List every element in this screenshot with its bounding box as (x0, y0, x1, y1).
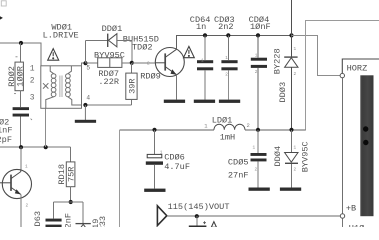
connector pin dot 1 (363, 126, 368, 131)
svg-text:2: 2 (26, 204, 29, 209)
ground (VOUT net, clipped) (189, 226, 207, 229)
wire HORZ to +B vertical (341, 78, 343, 214)
svg-text:1ØnF: 1ØnF (250, 22, 271, 32)
node junction (258,35.4) (256, 33, 260, 37)
svg-text:1: 1 (160, 150, 163, 155)
svg-text:1nF: 1nF (0, 125, 12, 135)
svg-text:2: 2 (147, 62, 150, 67)
node junction (131.8,62.8) (130, 61, 134, 65)
wire Q1 emitter to bottom edge (20, 194, 22, 227)
node junction pin4 (85.4,105) (83, 103, 87, 107)
node junction (70.7,202) (69, 200, 73, 204)
svg-text:DDØ1: DDØ1 (102, 24, 123, 34)
svg-text:2: 2 (255, 70, 258, 75)
wire pin4 ground stub (84, 105, 86, 120)
svg-text:LDØ1: LDØ1 (212, 115, 233, 125)
ground (CD05) (249, 188, 270, 191)
wire DD04 top (291, 130, 293, 153)
wire bottom-left net y=147.2 (0, 146, 71, 148)
diode DD04 (285, 153, 298, 164)
svg-text:1ØØR: 1ØØR (15, 66, 25, 87)
ground (CD64) (194, 100, 215, 103)
diode DD03 (284, 57, 298, 67)
ground (CD03) (219, 100, 240, 103)
resistor RD07 (98, 58, 122, 87)
transistor TD02 (155, 48, 184, 77)
node junction (154.5,129.8) (152, 128, 156, 132)
svg-text:2: 2 (294, 72, 297, 77)
label CD02 (clipped at left edge) (0, 118, 12, 146)
wire CD05 top (257, 130, 259, 153)
svg-text:HORZ: HORZ (347, 64, 368, 74)
capacitor CD04 (251, 58, 267, 68)
warning triangle A (48, 49, 59, 61)
wire right-edge feed y=20.5 (292, 21, 379, 130)
capacitor CD05 (251, 153, 267, 161)
svg-text:+B: +B (346, 203, 356, 213)
svg-text:RDØ9: RDØ9 (140, 72, 161, 82)
node +B (open circle) (340, 214, 344, 218)
wire CD02 to bottom net (20, 117, 22, 148)
svg-text:DDØ4: DDØ4 (273, 146, 283, 167)
svg-text:TDØ2: TDØ2 (132, 42, 153, 52)
resistor RD02 (7, 57, 25, 94)
capacitor CD03 (221, 60, 237, 70)
wire ground stub VOUT (196, 216, 198, 225)
wire CD64 top (204, 35, 206, 60)
svg-text:5: 5 (86, 64, 90, 71)
ground (TD02 emitter) (164, 100, 185, 103)
svg-text:2pF: 2pF (0, 135, 12, 145)
wire CD05 bottom (257, 161, 259, 187)
node junction (196.8,216.2) (195, 214, 199, 218)
node junction (21,147.2) (19, 145, 23, 149)
wire RD02 to CD02 (20, 91, 22, 108)
svg-text:4.7uF: 4.7uF (164, 162, 190, 172)
wire below +B (342, 218, 344, 227)
ground (CD06) (144, 189, 165, 192)
HORZ box (342, 59, 379, 73)
svg-text:1: 1 (25, 165, 28, 170)
wire y=202 run (54, 202, 84, 223)
node junction (228.3,35.4) (226, 33, 230, 37)
wire CD03 bottom (227, 70, 229, 99)
wire long vertical x=120 (119, 130, 121, 227)
svg-text:39R: 39R (128, 78, 138, 93)
svg-text:1: 1 (201, 59, 204, 64)
node junction (258,129.8) (256, 128, 260, 132)
capacitor CD06 (polarized) (146, 154, 163, 164)
svg-text:1: 1 (255, 54, 258, 59)
plus tick (203, 221, 206, 224)
warning triangle C (clipped) (211, 222, 216, 228)
svg-text:115(145)VOUT: 115(145)VOUT (168, 202, 230, 212)
ground (DD04) (280, 188, 301, 191)
svg-text:CD63: CD63 (33, 211, 43, 227)
svg-text:RD18: RD18 (57, 164, 67, 185)
svg-text:27nF: 27nF (228, 171, 249, 181)
wire CD64 bottom (204, 70, 206, 99)
svg-text:1: 1 (294, 146, 297, 151)
capacitor CD02 (13, 107, 29, 116)
svg-text:1: 1 (204, 123, 208, 130)
node HORZ (open circle) (340, 73, 344, 77)
svg-text:2n2: 2n2 (218, 22, 233, 32)
wire RD07 to node (122, 62, 132, 64)
svg-text:U1Ø: U1Ø (349, 224, 364, 228)
node junction (45.7,147.2) (44, 145, 48, 149)
svg-text:3: 3 (30, 94, 35, 103)
warning triangle B (184, 46, 195, 57)
svg-text:1mH: 1mH (220, 133, 235, 143)
svg-text:2: 2 (247, 122, 250, 129)
wire pin5 stub (81, 63, 86, 66)
svg-text:1: 1 (225, 56, 228, 61)
wire top net y=35.4 (176, 34, 292, 36)
wire to HORZ node (292, 35, 341, 75)
wire left net y=43 (0, 43, 41, 67)
svg-text:75R: 75R (67, 167, 77, 182)
wire RD09 bottom / pin4 net y=105 (85, 99, 131, 105)
wire RD18 bottom (70, 187, 72, 202)
top-left tiny square (1, 1, 6, 6)
ground (transformer pin4) (75, 120, 96, 123)
wire transformer pin3-lead to net (45, 108, 47, 147)
svg-text:BYV95C: BYV95C (301, 141, 311, 172)
wire DD03 vertical (291, 0, 293, 130)
wire CD04 top (257, 35, 259, 57)
svg-text:2: 2 (294, 168, 297, 173)
resistor RD18 (57, 162, 77, 187)
wire base node to TD02 (132, 62, 156, 64)
svg-text:2: 2 (30, 77, 35, 86)
node junction (205,35.4) (203, 33, 207, 37)
transistor Q1 (bottom left, clipped) (0, 169, 32, 198)
svg-text:4: 4 (86, 95, 90, 102)
svg-text:CDØ5: CDØ5 (228, 157, 249, 167)
wire LD net y=129.8 (120, 129, 306, 131)
wire RD18 branch (70, 147, 72, 162)
wire CD04 bottom to LD net (257, 68, 259, 130)
diode DD01 (108, 34, 117, 47)
svg-text:R33: R33 (98, 216, 108, 227)
wire DD01 anode to base node (117, 40, 132, 63)
transformer WD01 (41, 66, 82, 109)
wire RD02 top (20, 43, 22, 62)
tiny pin ticks (25, 47, 297, 209)
wire CD06 bottom (154, 165, 156, 189)
X polarity mark (43, 83, 48, 88)
inductor LD01 (214, 124, 245, 130)
svg-text:22nF: 22nF (64, 213, 74, 227)
wire CD03 top (227, 35, 229, 60)
svg-text:BY228: BY228 (273, 48, 283, 74)
connector pin dot 2 (363, 140, 368, 145)
wire node to RD09 (131, 63, 133, 73)
node junction pin5 (85.5,63.2) (83, 61, 87, 65)
wire pin5 to RD07 (86, 62, 98, 64)
svg-text:1: 1 (294, 47, 297, 52)
wire DD01 cathode riser (86, 40, 108, 63)
wire collector riser Q1 (20, 147, 22, 170)
capacitor CD63 (46, 219, 62, 228)
node junction (21,43) (19, 41, 23, 45)
wire TD02 emitter (176, 75, 178, 100)
svg-text:DDØ3: DDØ3 (278, 82, 288, 103)
svg-text:1: 1 (253, 146, 256, 151)
svg-text:1: 1 (30, 64, 35, 73)
resistor RD09 (126, 73, 138, 99)
left winding (46, 66, 56, 109)
wire TD02 collector riser (176, 35, 178, 49)
core (59, 76, 61, 98)
wire CD06 top (154, 130, 156, 155)
right winding (66, 66, 82, 105)
svg-text:2: 2 (225, 72, 228, 77)
svg-text:2: 2 (255, 168, 258, 173)
svg-text:L.DRIVE: L.DRIVE (43, 30, 79, 40)
diode DD19 (clipped at bottom) (76, 224, 91, 232)
node junction (291.5,129.8) (289, 128, 293, 132)
svg-text:.22R: .22R (98, 77, 119, 87)
svg-text:1n: 1n (196, 22, 206, 32)
wire VOUT net y=216.2 (167, 215, 341, 217)
off-page arrow VOUT (157, 206, 166, 226)
connector bar (360, 75, 373, 216)
wire DD04 bottom (291, 164, 293, 188)
left edge arrow (0, 16, 3, 19)
capacitor CD64 (197, 60, 213, 70)
node junction (291.5,35.4) (289, 33, 293, 37)
